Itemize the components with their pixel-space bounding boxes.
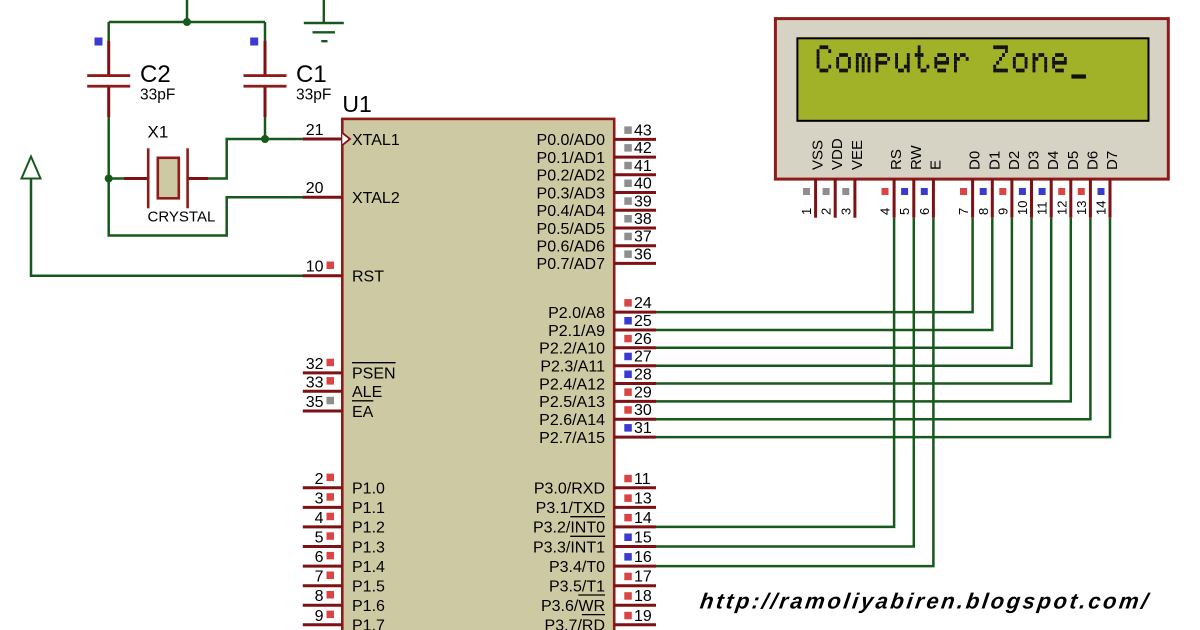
svg-text:VSS: VSS <box>810 140 827 170</box>
svg-text:P0.4/AD4: P0.4/AD4 <box>537 203 606 220</box>
svg-text:P2.3/A11: P2.3/A11 <box>540 359 605 376</box>
svg-text:P1.3: P1.3 <box>352 539 385 556</box>
wire P2.0 to LCD D0 <box>656 218 973 312</box>
svg-text:http://ramoliyabiren.blogspot.: http://ramoliyabiren.blogspot.com/ <box>699 589 1153 614</box>
junction VCC <box>183 18 191 26</box>
svg-text:18: 18 <box>634 588 652 605</box>
svg-text:19: 19 <box>634 608 652 625</box>
svg-text:33pF: 33pF <box>140 87 175 104</box>
svg-text:XTAL2: XTAL2 <box>352 190 400 207</box>
svg-text:28: 28 <box>634 367 652 384</box>
svg-text:41: 41 <box>634 158 652 175</box>
pin 37 P0.6/AD6 (right) <box>537 229 656 256</box>
svg-text:P0.2/AD2: P0.2/AD2 <box>537 168 606 185</box>
wire C2 bottom lead <box>107 117 110 179</box>
junction crystal left / C2 <box>105 175 113 183</box>
svg-text:P0.6/AD6: P0.6/AD6 <box>537 239 606 256</box>
svg-text:38: 38 <box>634 211 652 228</box>
svg-text:9: 9 <box>995 208 1010 215</box>
svg-text:20: 20 <box>306 180 324 197</box>
svg-text:P0.5/AD5: P0.5/AD5 <box>537 221 606 238</box>
svg-text:D6: D6 <box>1084 151 1101 170</box>
pin 42 P0.1/AD1 (right) <box>537 140 656 167</box>
LCD text Computer Zone <box>817 45 1067 72</box>
svg-text:14: 14 <box>1094 201 1109 215</box>
power-up arrow symbol <box>22 157 41 179</box>
svg-text:29: 29 <box>634 384 652 401</box>
svg-text:D0: D0 <box>967 151 984 170</box>
svg-text:ALE: ALE <box>352 384 382 401</box>
LCD pin 11 D4 <box>1035 151 1063 218</box>
svg-text:21: 21 <box>306 122 324 139</box>
svg-text:11: 11 <box>634 471 651 488</box>
svg-text:40: 40 <box>634 176 652 193</box>
svg-text:RW: RW <box>908 144 925 170</box>
junction XTAL1 / C1 <box>261 135 269 143</box>
svg-text:13: 13 <box>1074 201 1089 215</box>
svg-text:6: 6 <box>917 208 932 215</box>
svg-text:E: E <box>927 160 944 170</box>
svg-text:P3.3/INT1: P3.3/INT1 <box>533 539 605 556</box>
wire P2.1 to LCD D1 <box>656 218 992 330</box>
pin 5 P1.3 (left) <box>303 530 385 557</box>
svg-text:32: 32 <box>306 356 324 373</box>
pin 33 ALE (left) <box>303 374 382 401</box>
svg-text:15: 15 <box>634 530 652 547</box>
wire crystal left / C2 to XTAL2 <box>109 179 304 236</box>
svg-text:5: 5 <box>897 208 912 215</box>
svg-text:16: 16 <box>634 549 652 566</box>
wire P3 to LCD RS <box>656 218 894 527</box>
pin 39 P0.4/AD4 (right) <box>537 193 656 220</box>
wire C2 top lead <box>107 22 110 41</box>
LCD pin 2 VDD <box>819 138 847 218</box>
crystal X1 <box>124 148 208 208</box>
pin 17 P3.5/T1 (right) <box>549 569 656 596</box>
svg-text:27: 27 <box>634 349 652 366</box>
svg-text:37: 37 <box>634 229 652 246</box>
svg-text:D5: D5 <box>1065 151 1082 170</box>
wire P2.3 to LCD D3 <box>656 218 1032 366</box>
wire P3 to LCD RW <box>656 218 914 547</box>
pin 28 P2.4/A12 (right) <box>539 367 656 394</box>
svg-text:31: 31 <box>634 420 652 437</box>
LCD pin 4 RS <box>878 149 906 218</box>
svg-text:10: 10 <box>1015 201 1030 215</box>
svg-text:P3.2/INT0: P3.2/INT0 <box>533 520 605 537</box>
wire VCC top horizontal <box>109 21 265 24</box>
svg-text:P2.2/A10: P2.2/A10 <box>539 341 605 358</box>
pin 2 P1.0 (left) <box>303 471 385 498</box>
svg-text:12: 12 <box>1054 201 1069 215</box>
svg-text:RST: RST <box>352 269 384 286</box>
svg-text:P3.4/T0: P3.4/T0 <box>549 559 605 576</box>
svg-text:8: 8 <box>315 588 324 605</box>
LCD pin 14 D7 <box>1094 151 1122 218</box>
pin 16 P3.4/T0 (right) <box>549 549 656 576</box>
svg-text:36: 36 <box>634 246 652 263</box>
wire P2.4 to LCD D4 <box>656 218 1051 384</box>
svg-text:9: 9 <box>315 608 324 625</box>
svg-text:33pF: 33pF <box>296 87 331 104</box>
pin 10 RST (left) <box>303 259 384 286</box>
capacitor C1 <box>244 41 287 117</box>
svg-text:1: 1 <box>799 208 814 215</box>
svg-text:C2: C2 <box>140 61 171 88</box>
pin 24 P2.0/A8 (right) <box>548 295 656 322</box>
svg-text:P1.7: P1.7 <box>352 618 385 630</box>
svg-text:8: 8 <box>976 208 991 215</box>
LCD screen <box>797 38 1148 121</box>
wire P3 to LCD E <box>656 218 933 566</box>
LCD pin 9 D2 <box>995 151 1023 218</box>
pin 21 XTAL1 (left) <box>303 122 400 149</box>
pin 9 P1.7 (left) <box>303 608 385 630</box>
svg-text:4: 4 <box>878 208 893 215</box>
pin 3 P1.1 (left) <box>303 490 385 517</box>
LCD pin 3 VEE <box>838 140 866 218</box>
svg-text:P1.0: P1.0 <box>352 481 385 498</box>
wire P2.6 to LCD D6 <box>656 218 1090 420</box>
LCD pin 7 D0 <box>956 151 984 218</box>
svg-text:13: 13 <box>634 490 652 507</box>
svg-text:P0.1/AD1: P0.1/AD1 <box>537 150 606 167</box>
svg-text:D1: D1 <box>986 151 1003 170</box>
svg-text:VDD: VDD <box>829 138 846 170</box>
svg-text:35: 35 <box>306 394 324 411</box>
pin 14 P3.2/INT0 (right) <box>533 510 656 537</box>
LCD pin 5 RW <box>897 144 925 217</box>
pin 35 EA (left) <box>303 394 374 421</box>
svg-text:D7: D7 <box>1104 151 1121 170</box>
svg-text:VEE: VEE <box>849 140 866 170</box>
svg-text:P1.4: P1.4 <box>352 559 385 576</box>
svg-text:P2.1/A9: P2.1/A9 <box>548 323 605 340</box>
pin 26 P2.2/A10 (right) <box>539 331 656 358</box>
pin 41 P0.2/AD2 (right) <box>537 158 656 185</box>
wire C1 top lead <box>264 22 267 41</box>
svg-text:P3.7/RD: P3.7/RD <box>545 618 605 630</box>
svg-text:3: 3 <box>838 208 853 215</box>
pin 30 P2.6/A14 (right) <box>539 402 656 429</box>
svg-text:5: 5 <box>315 530 324 547</box>
LCD pin 10 D3 <box>1015 151 1043 218</box>
svg-text:P2.4/A12: P2.4/A12 <box>539 376 605 393</box>
wire P2.5 to LCD D5 <box>656 218 1071 402</box>
svg-text:4: 4 <box>315 510 324 527</box>
IC U1 body (80C51) <box>342 119 614 630</box>
svg-text:P0.3/AD3: P0.3/AD3 <box>537 185 606 202</box>
svg-text:14: 14 <box>634 510 652 527</box>
pin 18 P3.6/WR (right) <box>541 588 656 615</box>
pin 4 P1.2 (left) <box>303 510 385 537</box>
wire arrow to RST <box>31 179 304 276</box>
svg-text:C1: C1 <box>296 61 327 88</box>
svg-text:CRYSTAL: CRYSTAL <box>148 209 216 226</box>
svg-text:D2: D2 <box>1006 151 1023 170</box>
svg-text:D4: D4 <box>1045 151 1062 170</box>
svg-text:P3.1/TXD: P3.1/TXD <box>536 500 605 517</box>
wire P2.2 to LCD D2 <box>656 218 1012 348</box>
wire crystal right to XTAL1 <box>208 139 303 179</box>
capacitor C2 <box>87 41 130 117</box>
pin 21 clock arrow <box>342 133 350 145</box>
svg-text:7: 7 <box>956 208 971 215</box>
svg-text:43: 43 <box>634 122 652 139</box>
pin 20 XTAL2 (left) <box>303 180 400 207</box>
wire C1 bottom lead <box>264 117 267 139</box>
pin 43 P0.0/AD0 (right) <box>537 122 656 149</box>
node C2 top (blue square) <box>95 38 103 46</box>
LCD cursor underscore <box>1071 74 1086 78</box>
ground <box>304 0 344 41</box>
svg-text:3: 3 <box>315 490 324 507</box>
svg-text:25: 25 <box>634 313 652 330</box>
wire VCC vertical to top edge <box>186 0 189 22</box>
svg-text:6: 6 <box>315 549 324 566</box>
svg-text:10: 10 <box>306 259 324 276</box>
pin 13 P3.1/TXD (right) <box>536 490 656 517</box>
svg-text:7: 7 <box>315 569 324 586</box>
wire P2.7 to LCD D7 <box>656 218 1110 437</box>
svg-text:42: 42 <box>634 140 652 157</box>
svg-text:33: 33 <box>306 374 324 391</box>
svg-text:P2.0/A8: P2.0/A8 <box>548 305 605 322</box>
pin 15 P3.3/INT1 (right) <box>533 530 656 557</box>
svg-text:X1: X1 <box>148 123 169 142</box>
pin 38 P0.5/AD5 (right) <box>537 211 656 238</box>
pin 19 P3.7/RD (right) <box>545 608 656 630</box>
svg-text:P0.0/AD0: P0.0/AD0 <box>537 132 606 149</box>
pin 27 P2.3/A11 (right) <box>540 349 656 376</box>
svg-text:2: 2 <box>315 471 324 488</box>
svg-text:P3.0/RXD: P3.0/RXD <box>534 481 605 498</box>
wire crystal left lead green <box>109 177 124 180</box>
pin 7 P1.5 (left) <box>303 569 385 596</box>
LCD pin 6 E <box>917 160 945 218</box>
svg-text:39: 39 <box>634 193 652 210</box>
pin 29 P2.5/A13 (right) <box>539 384 656 411</box>
svg-text:P1.6: P1.6 <box>352 598 385 615</box>
svg-text:2: 2 <box>819 208 834 215</box>
svg-text:P2.5/A13: P2.5/A13 <box>539 394 605 411</box>
svg-text:P1.1: P1.1 <box>352 500 385 517</box>
svg-text:P3.6/WR: P3.6/WR <box>541 598 605 615</box>
svg-text:EA: EA <box>352 404 374 421</box>
svg-text:XTAL1: XTAL1 <box>352 132 400 149</box>
LCD pin 12 D5 <box>1054 151 1082 218</box>
pin 40 P0.3/AD3 (right) <box>537 176 656 203</box>
svg-text:RS: RS <box>888 149 905 170</box>
pin 11 P3.0/RXD (right) <box>534 471 656 498</box>
svg-text:PSEN: PSEN <box>352 366 396 383</box>
pin 25 P2.1/A9 (right) <box>548 313 656 340</box>
node C1 top (blue square) <box>250 38 258 46</box>
svg-text:26: 26 <box>634 331 652 348</box>
svg-text:P2.7/A15: P2.7/A15 <box>539 430 605 447</box>
LCD pin 8 D1 <box>976 151 1004 218</box>
svg-text:11: 11 <box>1035 202 1050 216</box>
svg-text:U1: U1 <box>342 91 371 117</box>
svg-text:P1.2: P1.2 <box>352 520 385 537</box>
svg-text:17: 17 <box>634 569 652 586</box>
svg-text:P2.6/A14: P2.6/A14 <box>539 412 605 429</box>
LCD pin 1 VSS <box>799 140 827 218</box>
svg-text:P1.5: P1.5 <box>352 579 385 596</box>
svg-text:30: 30 <box>634 402 652 419</box>
pin 31 P2.7/A15 (right) <box>539 420 656 447</box>
pin 36 P0.7/AD7 (right) <box>537 246 656 273</box>
svg-text:P0.7/AD7: P0.7/AD7 <box>537 256 606 273</box>
svg-text:24: 24 <box>634 295 652 312</box>
svg-text:D3: D3 <box>1026 151 1043 170</box>
pin 8 P1.6 (left) <box>303 588 385 615</box>
svg-text:P3.5/T1: P3.5/T1 <box>549 579 605 596</box>
pin 6 P1.4 (left) <box>303 549 385 576</box>
LCD pin 13 D6 <box>1074 151 1102 218</box>
pin 32 PSEN (left) <box>303 356 396 383</box>
LCD module LM016L body <box>775 19 1168 180</box>
